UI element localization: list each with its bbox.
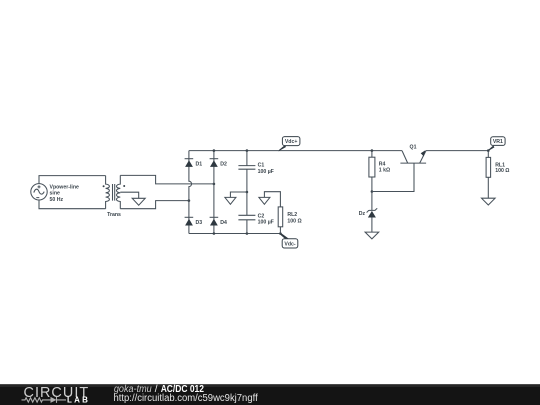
- transformer Trans primary winding: [106, 176, 110, 209]
- flag Vdc-: [280, 233, 298, 248]
- wire secondary bottom to bridge: [120, 201, 189, 209]
- primary phase dot: [103, 185, 105, 187]
- transformer Trans secondary winding: [116, 175, 120, 208]
- svg-text:C1: C1: [258, 162, 265, 168]
- voltage source V1 (Vpower-line sine 50 Hz): [31, 184, 79, 203]
- ground (transformer center tap): [132, 198, 145, 205]
- diode D2: [210, 159, 227, 168]
- ground (RL2 top): [259, 197, 270, 204]
- node: bottom bridge input junction: [188, 199, 191, 202]
- wire RL2 top to ground: [264, 192, 280, 207]
- ground (RL1): [482, 198, 496, 205]
- resistor RL1: [486, 151, 509, 199]
- svg-text:1 kΩ: 1 kΩ: [379, 168, 390, 174]
- flag VR1: [488, 137, 506, 152]
- wire source top to transformer primary: [39, 176, 106, 184]
- svg-text:D4: D4: [220, 220, 227, 226]
- bridge right branch wire: [213, 151, 215, 234]
- ground (Dz): [365, 232, 379, 239]
- svg-text:D2: D2: [220, 161, 227, 167]
- svg-text:Dz: Dz: [359, 211, 366, 217]
- wire midpoint to ground: [230, 192, 247, 197]
- ground (capacitor midpoint): [225, 197, 236, 204]
- svg-text:100 µF: 100 µF: [258, 169, 274, 175]
- svg-text:http://circuitlab.com/c59wc9kj: http://circuitlab.com/c59wc9kj7ngff: [114, 393, 258, 404]
- zener diode Dz: [359, 192, 378, 233]
- svg-text:100 µF: 100 µF: [258, 219, 274, 225]
- svg-text:100 Ω: 100 Ω: [287, 218, 301, 224]
- bridge left branch wire with hop: [189, 151, 192, 234]
- node C1/C2 midpoint: [246, 191, 249, 194]
- wire source bottom to transformer primary: [39, 200, 106, 209]
- diode D3: [185, 217, 203, 226]
- transistor Q1: [400, 144, 426, 163]
- svg-text:Q1: Q1: [410, 144, 417, 150]
- svg-text:RL2: RL2: [287, 212, 297, 218]
- svg-text:50 Hz: 50 Hz: [50, 197, 64, 203]
- CircuitLab logo: [22, 385, 91, 405]
- wire emitter to VR1 node: [426, 150, 488, 152]
- flag Vdc+: [278, 137, 300, 152]
- svg-text:Vdc+: Vdc+: [285, 139, 298, 145]
- node: top bridge input junction: [213, 183, 216, 186]
- footer bar: [0, 384, 540, 405]
- footer title text: [114, 384, 258, 404]
- svg-text:sine: sine: [50, 191, 60, 197]
- diode D4: [210, 217, 227, 226]
- wire secondary top to bridge: [120, 175, 214, 184]
- node D4 bottom: [213, 232, 216, 235]
- svg-text:D3: D3: [196, 220, 203, 226]
- secondary phase dot: [123, 185, 125, 187]
- capacitor C1: [238, 151, 273, 192]
- node R4 top: [371, 149, 374, 152]
- svg-text:R4: R4: [379, 161, 386, 167]
- node D2 top: [213, 149, 216, 152]
- node RL2 bottom: [279, 232, 282, 235]
- resistor RL2: [278, 207, 301, 234]
- node C2 bottom: [246, 232, 249, 235]
- svg-text:Trans: Trans: [107, 212, 121, 218]
- wire top rail Vdc+: [189, 150, 402, 152]
- wire base of Q1: [372, 163, 414, 191]
- svg-text:Vdc-: Vdc-: [284, 241, 296, 247]
- transformer core: [113, 184, 115, 201]
- node R4 bottom / Dz / base junction: [371, 190, 374, 193]
- svg-text:100 Ω: 100 Ω: [495, 168, 509, 174]
- wire bottom rail Vdc-: [189, 233, 281, 235]
- svg-text:VR1: VR1: [493, 139, 503, 145]
- svg-text:LAB: LAB: [67, 396, 90, 405]
- node C1 top: [246, 149, 249, 152]
- resistor R4: [369, 151, 390, 192]
- diode D1: [185, 159, 203, 168]
- svg-text:D1: D1: [196, 161, 203, 167]
- node VR1 / RL1: [487, 149, 490, 152]
- wire secondary center tap to ground: [120, 192, 138, 198]
- capacitor C2: [238, 192, 273, 234]
